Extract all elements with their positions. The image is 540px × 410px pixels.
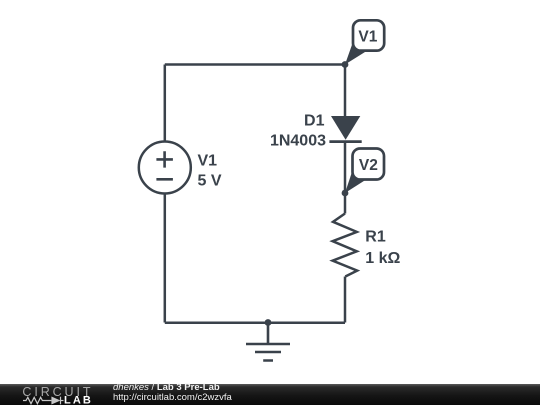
svg-text:5 V: 5 V xyxy=(198,173,222,190)
svg-text:V2: V2 xyxy=(359,157,378,174)
svg-text:R1: R1 xyxy=(365,229,386,246)
svg-text:V1: V1 xyxy=(358,29,377,46)
svg-text:1 kΩ: 1 kΩ xyxy=(365,250,400,267)
svg-text:V1: V1 xyxy=(198,153,218,170)
svg-text:D1: D1 xyxy=(304,113,325,130)
svg-text:1N4003: 1N4003 xyxy=(270,132,326,149)
svg-text:LAB: LAB xyxy=(64,395,93,405)
